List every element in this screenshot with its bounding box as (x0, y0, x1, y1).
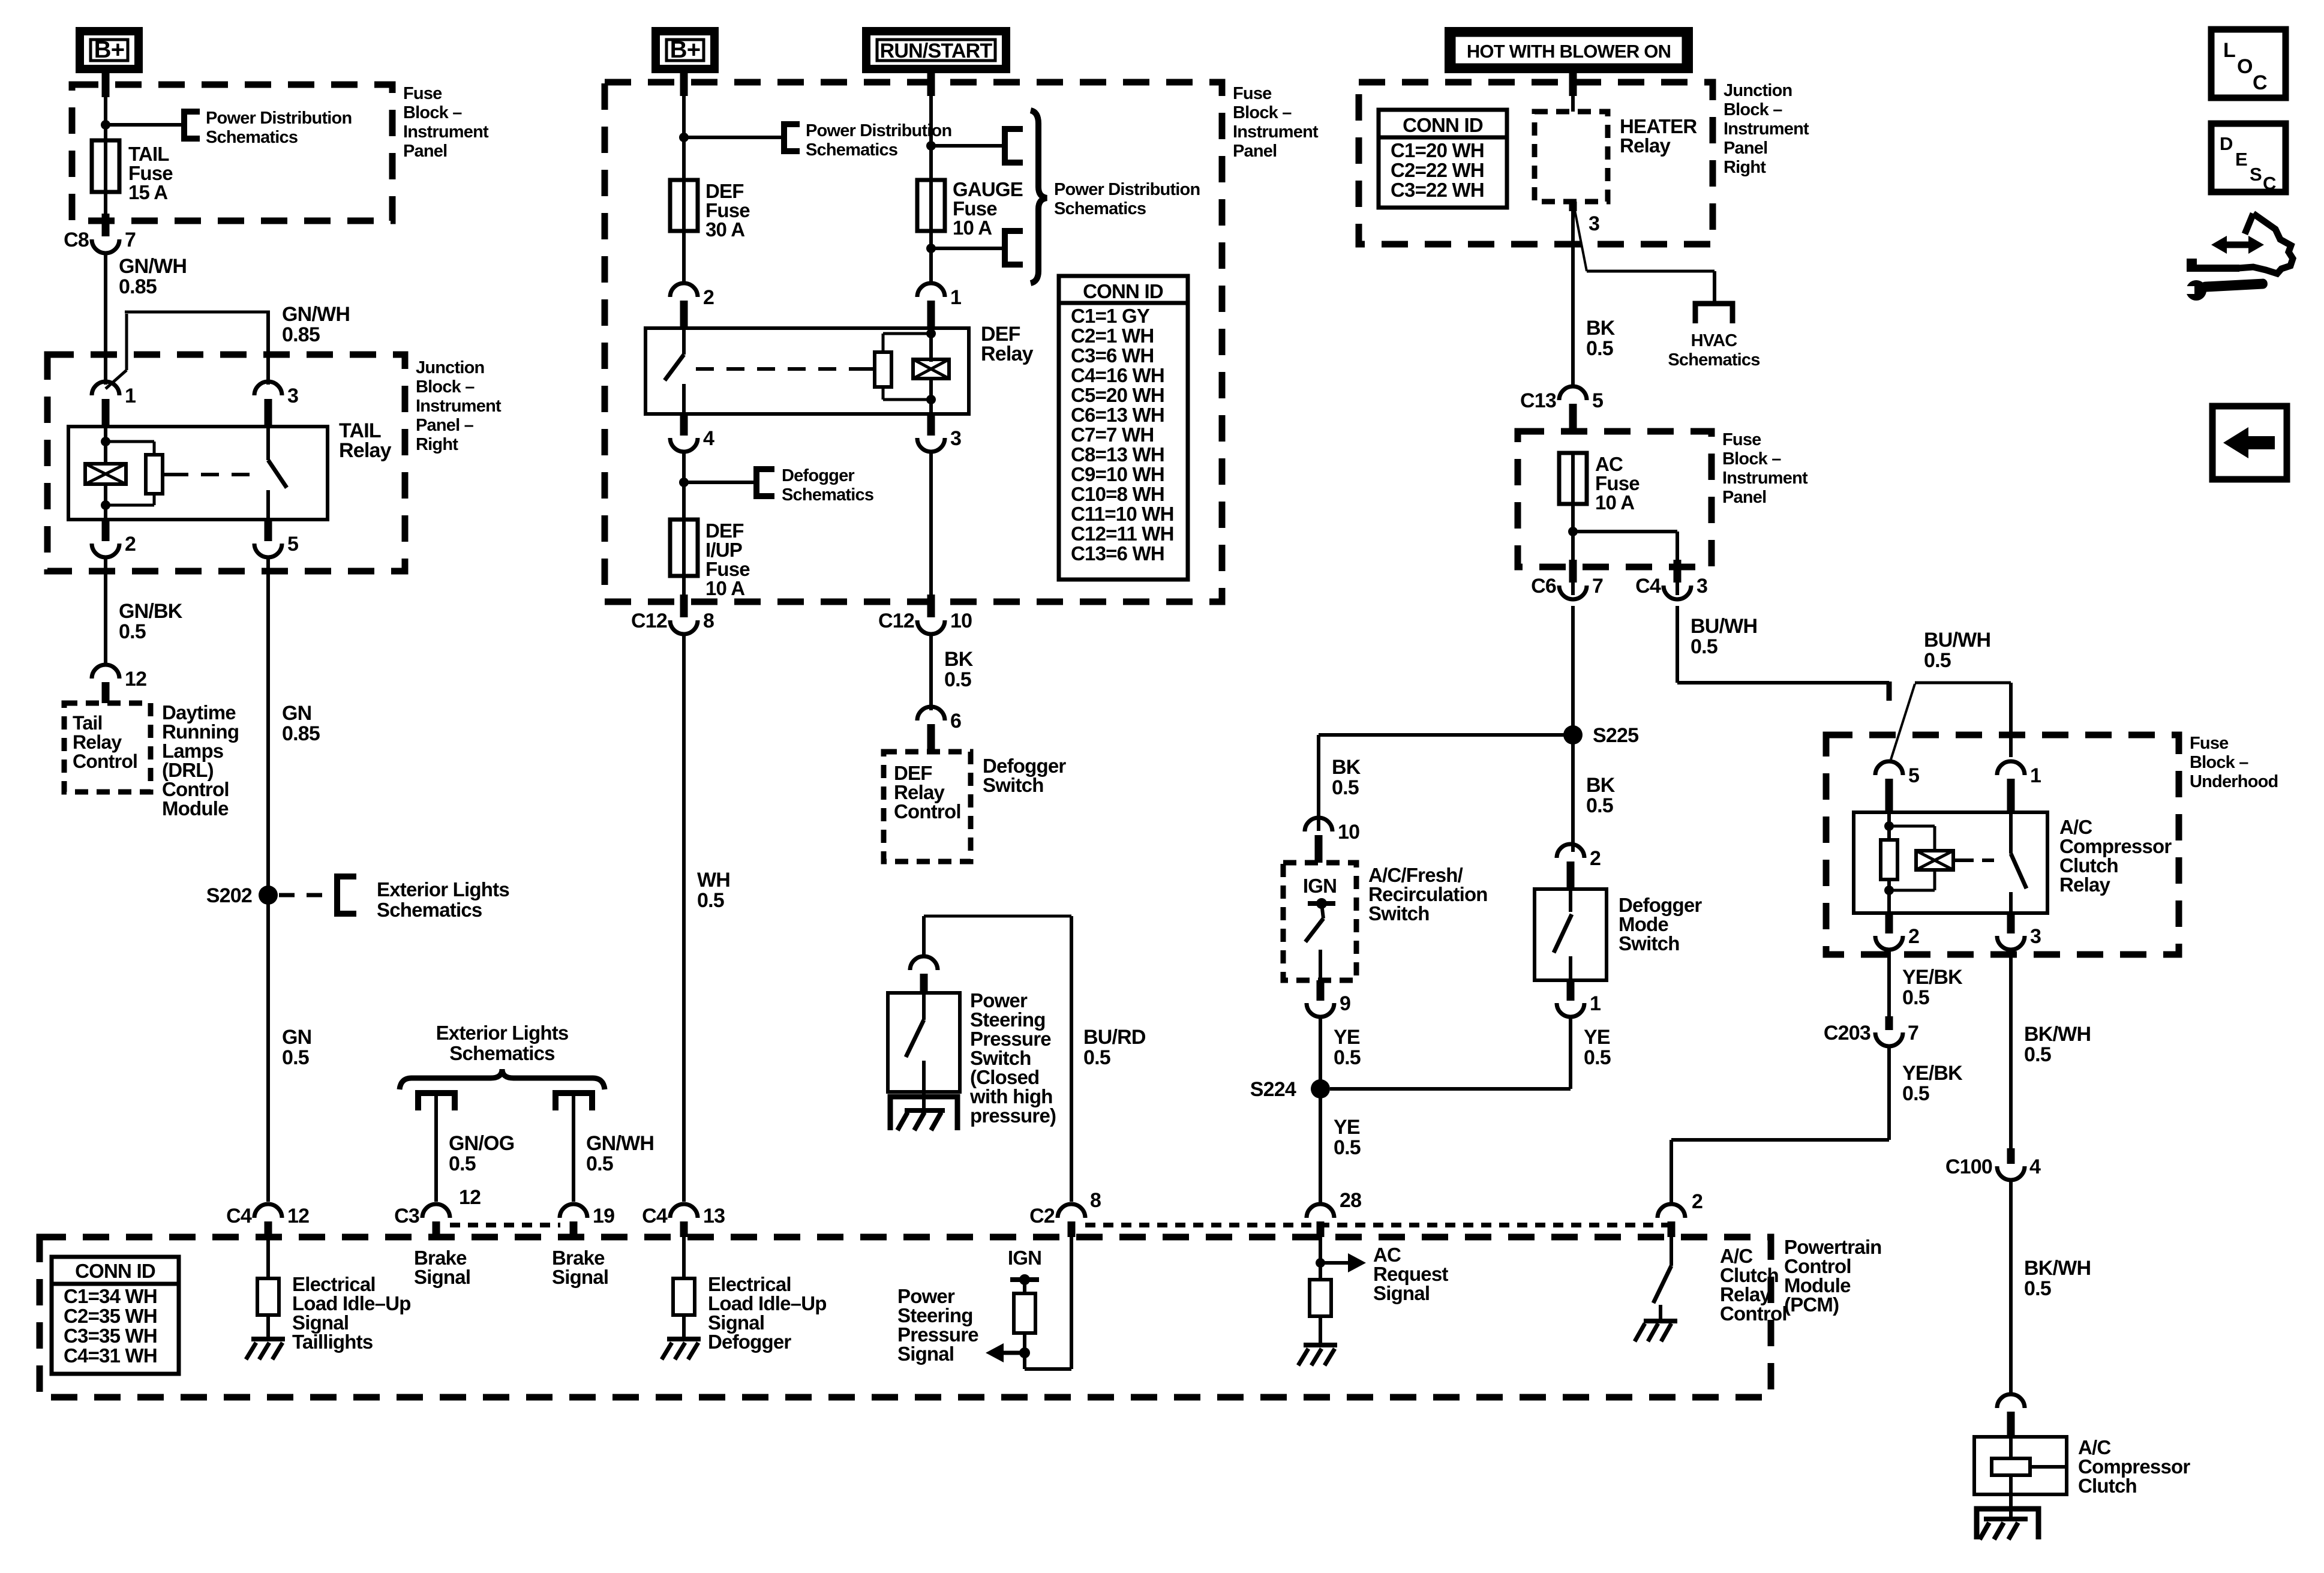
svg-text:C11=10 WH: C11=10 WH (1071, 503, 1174, 525)
svg-text:Block –: Block – (1233, 103, 1292, 122)
svg-text:Junction: Junction (1724, 81, 1792, 100)
svg-text:C1=1 GY: C1=1 GY (1071, 305, 1150, 327)
svg-text:IGN: IGN (1008, 1247, 1041, 1269)
svg-text:Underhood: Underhood (2190, 772, 2278, 791)
svg-text:Block –: Block – (403, 103, 462, 122)
svg-text:GN/OG: GN/OG (449, 1132, 514, 1155)
svg-text:1: 1 (2030, 764, 2041, 787)
svg-text:(PCM): (PCM) (1784, 1293, 1839, 1316)
svg-text:Exterior Lights: Exterior Lights (436, 1022, 569, 1044)
svg-text:0.5: 0.5 (586, 1152, 613, 1175)
svg-text:13: 13 (703, 1205, 725, 1227)
svg-text:Instrument: Instrument (403, 122, 489, 142)
svg-text:S202: S202 (206, 884, 252, 907)
svg-text:7: 7 (125, 229, 136, 251)
svg-text:Instrument: Instrument (1724, 119, 1809, 139)
svg-text:Junction: Junction (416, 358, 484, 377)
svg-text:0.5: 0.5 (1584, 1046, 1611, 1069)
svg-text:C: C (2253, 71, 2267, 94)
svg-text:Switch: Switch (1368, 902, 1430, 924)
svg-text:Relay: Relay (1620, 134, 1671, 157)
svg-text:3: 3 (1589, 212, 1599, 235)
svg-text:Right: Right (1724, 158, 1766, 177)
svg-text:C12: C12 (631, 610, 667, 632)
svg-text:1: 1 (950, 286, 961, 309)
svg-text:Relay: Relay (73, 731, 122, 753)
svg-text:19: 19 (593, 1205, 614, 1227)
svg-text:C2=22 WH: C2=22 WH (1391, 159, 1484, 181)
svg-text:Signal: Signal (897, 1343, 954, 1365)
svg-text:28: 28 (1340, 1189, 1361, 1212)
svg-text:BU/RD: BU/RD (1083, 1026, 1146, 1049)
svg-text:Relay: Relay (2059, 873, 2111, 896)
svg-text:GN: GN (282, 1026, 311, 1049)
svg-text:C3=22 WH: C3=22 WH (1391, 179, 1484, 201)
svg-text:9: 9 (1340, 992, 1350, 1015)
svg-text:4: 4 (2029, 1155, 2041, 1178)
svg-text:C4: C4 (226, 1205, 252, 1227)
svg-text:C203: C203 (1824, 1022, 1870, 1044)
svg-text:3: 3 (950, 427, 961, 450)
svg-text:Fuse: Fuse (1233, 84, 1272, 103)
svg-text:RUN/START: RUN/START (880, 40, 993, 62)
svg-text:BK/WH: BK/WH (2024, 1257, 2091, 1280)
svg-text:C5=20 WH: C5=20 WH (1071, 384, 1164, 406)
svg-text:0.5: 0.5 (1924, 649, 1951, 672)
svg-text:HOT WITH BLOWER ON: HOT WITH BLOWER ON (1467, 41, 1671, 62)
svg-text:Instrument: Instrument (416, 397, 502, 416)
svg-text:C2=35 WH: C2=35 WH (64, 1305, 157, 1327)
svg-text:0.5: 0.5 (1334, 1136, 1361, 1159)
svg-text:10: 10 (950, 610, 972, 632)
svg-text:0.5: 0.5 (1691, 635, 1718, 658)
svg-text:BU/WH: BU/WH (1924, 629, 1990, 652)
svg-text:0.5: 0.5 (1902, 1082, 1929, 1105)
svg-text:Panel –: Panel – (416, 416, 474, 435)
svg-text:C4=31 WH: C4=31 WH (64, 1344, 157, 1367)
svg-text:Fuse: Fuse (403, 84, 442, 103)
svg-text:10 A: 10 A (953, 217, 992, 239)
svg-text:3: 3 (287, 385, 298, 407)
svg-text:YE: YE (1334, 1026, 1360, 1049)
svg-text:7: 7 (1592, 575, 1603, 598)
svg-text:S225: S225 (1593, 724, 1638, 747)
svg-text:Fuse: Fuse (1722, 430, 1761, 449)
svg-text:Schematics: Schematics (206, 128, 298, 147)
svg-text:C2=1 WH: C2=1 WH (1071, 325, 1154, 347)
svg-text:C3=6 WH: C3=6 WH (1071, 344, 1154, 367)
svg-text:C10=8 WH: C10=8 WH (1071, 483, 1164, 505)
svg-text:Panel: Panel (403, 142, 447, 161)
svg-text:C3: C3 (394, 1205, 419, 1227)
svg-text:Panel: Panel (1233, 142, 1277, 161)
svg-text:30 A: 30 A (705, 218, 744, 241)
svg-text:CONN ID: CONN ID (1403, 114, 1483, 136)
svg-text:C3=35 WH: C3=35 WH (64, 1325, 157, 1347)
svg-text:pressure): pressure) (970, 1104, 1056, 1127)
svg-text:0.5: 0.5 (2024, 1043, 2051, 1066)
svg-text:5: 5 (1592, 389, 1603, 412)
svg-text:0.5: 0.5 (1332, 776, 1359, 799)
svg-text:12: 12 (459, 1186, 481, 1209)
svg-text:0.5: 0.5 (1334, 1046, 1361, 1069)
svg-text:C4: C4 (642, 1205, 668, 1227)
svg-text:GN: GN (282, 702, 311, 725)
svg-text:2: 2 (1692, 1190, 1703, 1213)
svg-text:Switch: Switch (983, 774, 1044, 796)
svg-text:BK/WH: BK/WH (2024, 1023, 2091, 1046)
svg-text:E: E (2235, 149, 2247, 170)
svg-text:BK: BK (944, 648, 974, 671)
svg-text:BU/WH: BU/WH (1691, 615, 1757, 638)
svg-text:YE: YE (1334, 1116, 1360, 1139)
svg-text:Power Distribution: Power Distribution (1054, 180, 1200, 199)
svg-text:GN/WH: GN/WH (282, 303, 350, 326)
svg-text:Fuse: Fuse (2190, 734, 2229, 753)
svg-text:O: O (2237, 55, 2253, 78)
svg-text:C12=11 WH: C12=11 WH (1071, 523, 1174, 545)
svg-text:0.5: 0.5 (1586, 794, 1613, 817)
svg-text:CONN ID: CONN ID (1083, 280, 1163, 302)
svg-text:C2: C2 (1029, 1205, 1055, 1227)
svg-text:Block –: Block – (2190, 753, 2248, 772)
svg-text:Signal: Signal (414, 1266, 470, 1288)
svg-text:0.85: 0.85 (119, 275, 157, 298)
svg-text:Defogger: Defogger (782, 466, 854, 485)
svg-text:2: 2 (125, 533, 136, 556)
svg-text:C1=20 WH: C1=20 WH (1391, 139, 1484, 161)
svg-text:Schematics: Schematics (1054, 199, 1146, 218)
svg-text:C6: C6 (1531, 575, 1556, 598)
svg-text:12: 12 (287, 1205, 309, 1227)
svg-text:CONN ID: CONN ID (75, 1260, 155, 1282)
svg-text:0.5: 0.5 (944, 668, 971, 691)
svg-text:4: 4 (703, 427, 714, 450)
svg-text:Power Distribution: Power Distribution (206, 109, 352, 128)
svg-text:5: 5 (287, 533, 298, 556)
svg-text:BK: BK (1586, 774, 1616, 797)
svg-text:B+: B+ (94, 37, 125, 63)
svg-text:HVAC: HVAC (1691, 331, 1738, 350)
svg-text:C100: C100 (1945, 1155, 1992, 1178)
svg-text:WH: WH (697, 869, 730, 891)
svg-text:Schematics: Schematics (806, 140, 897, 160)
svg-text:15 A: 15 A (128, 181, 167, 203)
svg-text:BK: BK (1586, 317, 1616, 340)
svg-text:8: 8 (703, 610, 714, 632)
svg-text:0.5: 0.5 (1083, 1046, 1110, 1069)
svg-text:C8: C8 (64, 229, 89, 251)
svg-text:Tail: Tail (73, 712, 103, 734)
svg-text:YE/BK: YE/BK (1902, 1062, 1963, 1085)
svg-text:C13=6 WH: C13=6 WH (1071, 542, 1164, 565)
svg-text:Right: Right (416, 435, 458, 454)
svg-text:C4=16 WH: C4=16 WH (1071, 364, 1164, 386)
svg-text:YE: YE (1584, 1026, 1610, 1049)
svg-text:C6=13 WH: C6=13 WH (1071, 404, 1164, 426)
svg-text:7: 7 (1908, 1022, 1918, 1044)
svg-text:BK: BK (1332, 756, 1361, 779)
svg-text:12: 12 (125, 668, 146, 691)
svg-text:0.5: 0.5 (449, 1152, 476, 1175)
svg-text:Schematics: Schematics (1668, 350, 1759, 370)
svg-text:GN/WH: GN/WH (119, 255, 187, 278)
svg-text:C: C (2263, 173, 2276, 194)
svg-text:IGN: IGN (1303, 875, 1337, 897)
svg-text:Relay: Relay (339, 439, 392, 462)
svg-text:10 A: 10 A (1595, 491, 1634, 514)
svg-text:Defogger: Defogger (708, 1331, 791, 1353)
svg-text:0.5: 0.5 (1586, 337, 1613, 360)
svg-text:Schematics: Schematics (782, 485, 873, 505)
svg-text:0.85: 0.85 (282, 722, 320, 745)
svg-text:1: 1 (125, 385, 136, 407)
svg-text:C7=7 WH: C7=7 WH (1071, 424, 1154, 446)
svg-text:Taillights: Taillights (292, 1331, 373, 1353)
svg-text:Clutch: Clutch (2078, 1475, 2137, 1497)
svg-text:Exterior Lights: Exterior Lights (377, 878, 509, 900)
svg-text:C9=10 WH: C9=10 WH (1071, 463, 1164, 485)
svg-text:Schematics: Schematics (377, 899, 482, 921)
svg-text:S224: S224 (1250, 1078, 1296, 1101)
svg-text:D: D (2220, 133, 2233, 154)
svg-text:0.5: 0.5 (1902, 986, 1929, 1009)
svg-text:Block –: Block – (1724, 100, 1782, 119)
svg-text:GN/WH: GN/WH (586, 1132, 654, 1155)
svg-text:L: L (2223, 39, 2235, 62)
svg-text:Signal: Signal (1373, 1282, 1430, 1304)
svg-text:C12: C12 (878, 610, 914, 632)
svg-text:3: 3 (2030, 925, 2041, 948)
svg-text:1: 1 (1590, 992, 1601, 1015)
svg-text:0.5: 0.5 (2024, 1277, 2051, 1300)
svg-text:Panel: Panel (1722, 488, 1766, 507)
svg-text:YE/BK: YE/BK (1902, 966, 1963, 989)
svg-text:Signal: Signal (552, 1266, 608, 1288)
svg-text:5: 5 (1908, 764, 1919, 787)
svg-text:S: S (2250, 164, 2262, 185)
svg-text:Schematics: Schematics (449, 1042, 554, 1064)
svg-text:0.5: 0.5 (119, 620, 146, 643)
svg-text:2: 2 (1908, 925, 1919, 948)
svg-text:C4: C4 (1635, 575, 1661, 598)
svg-text:10: 10 (1338, 821, 1359, 843)
svg-text:Switch: Switch (1619, 932, 1680, 954)
svg-text:Block –: Block – (1722, 449, 1781, 469)
svg-text:2: 2 (703, 286, 714, 309)
svg-text:C1=34 WH: C1=34 WH (64, 1285, 157, 1307)
svg-text:3: 3 (1697, 575, 1707, 598)
svg-text:0.5: 0.5 (697, 889, 724, 912)
svg-text:GN/BK: GN/BK (119, 600, 183, 623)
svg-text:Relay: Relay (981, 343, 1034, 365)
svg-text:B+: B+ (670, 37, 701, 63)
svg-text:Block –: Block – (416, 377, 475, 397)
svg-text:Control: Control (73, 751, 137, 772)
svg-text:6: 6 (950, 710, 961, 733)
svg-text:Instrument: Instrument (1722, 469, 1808, 488)
svg-text:Control: Control (1720, 1302, 1787, 1325)
svg-text:C13: C13 (1520, 389, 1556, 412)
svg-text:2: 2 (1590, 847, 1601, 870)
svg-text:Panel: Panel (1724, 139, 1767, 158)
svg-text:Module: Module (162, 797, 229, 819)
svg-text:Control: Control (894, 800, 961, 822)
svg-text:0.5: 0.5 (282, 1046, 309, 1069)
svg-text:C8=13 WH: C8=13 WH (1071, 443, 1164, 466)
svg-text:0.85: 0.85 (282, 323, 320, 346)
svg-text:10 A: 10 A (705, 577, 744, 599)
svg-text:8: 8 (1090, 1189, 1101, 1212)
svg-text:Instrument: Instrument (1233, 122, 1319, 142)
